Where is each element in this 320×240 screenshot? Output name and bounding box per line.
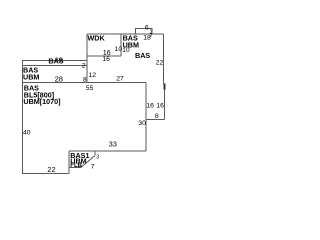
svg-text:2: 2: [82, 63, 86, 70]
wire bump right: [151, 28, 153, 34]
svg-text:6: 6: [145, 25, 149, 32]
svg-text:10: 10: [122, 47, 130, 54]
wire left edge: [22, 60, 24, 173]
svg-text:22: 22: [47, 165, 55, 174]
wire right edge lower: [164, 84, 166, 119]
svg-text:16: 16: [146, 103, 154, 110]
svg-text:12: 12: [89, 72, 97, 79]
svg-text:WDK: WDK: [88, 34, 106, 43]
wire strip1 top: [22, 60, 87, 62]
svg-text:BAS: BAS: [135, 51, 150, 60]
svg-text:16: 16: [102, 56, 110, 63]
wire box bottom: [146, 118, 165, 120]
wire 33 line: [69, 150, 146, 152]
wire strip1 bottom: [22, 65, 87, 67]
svg-text:8: 8: [155, 113, 159, 120]
wire lower-left vertical: [68, 151, 70, 173]
wire top edge: [87, 33, 164, 35]
svg-text:7: 7: [91, 163, 95, 170]
svg-text:33: 33: [109, 139, 117, 148]
wire BAS1 right: [94, 151, 96, 156]
svg-text:8: 8: [83, 76, 87, 83]
node thick tick right edge: [164, 84, 166, 90]
wire BAS1 bottom: [69, 166, 81, 168]
svg-text:2: 2: [149, 33, 152, 39]
wire main top: [22, 82, 146, 84]
svg-text:29: 29: [55, 57, 63, 64]
svg-text:22: 22: [156, 59, 164, 66]
wire WDK right: [120, 34, 122, 56]
wire WDK bottom: [87, 55, 121, 57]
wire bump top: [135, 28, 152, 30]
wire WDK left / strips right: [86, 34, 88, 83]
svg-text:40: 40: [23, 130, 31, 137]
svg-text:27: 27: [116, 76, 124, 83]
svg-text:FLB: FLB: [70, 163, 82, 169]
wire main right edge / box left: [145, 83, 147, 151]
svg-text:55: 55: [86, 85, 94, 92]
svg-text:30: 30: [138, 120, 146, 127]
wire bottom edge: [22, 172, 69, 174]
wire right edge upper: [163, 34, 165, 84]
svg-text:28: 28: [55, 74, 63, 83]
svg-text:UBM[1070]: UBM[1070]: [23, 97, 60, 106]
svg-text:16: 16: [156, 103, 164, 110]
wire jog: [164, 83, 165, 85]
svg-text:UBM: UBM: [23, 73, 39, 82]
wire BAS1 diagonal: [81, 156, 95, 168]
wire bump left: [135, 28, 137, 34]
svg-text:3: 3: [96, 155, 99, 161]
